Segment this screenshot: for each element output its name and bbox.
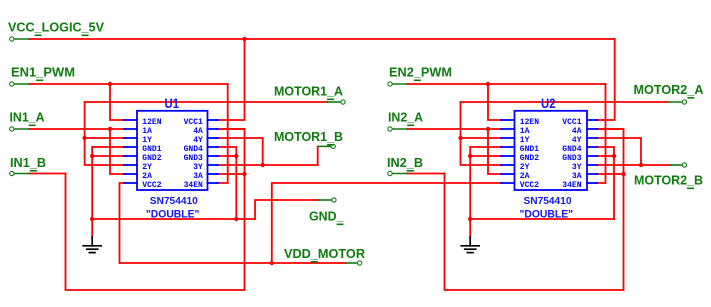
- junction dot VDD_MOTOR riser: [270, 261, 274, 265]
- wire IN1_B label green stub: [14, 173, 29, 175]
- wire IN1_B down and bottom run: [66, 174, 245, 291]
- wire VCC_LOGIC_5V label green stub: [14, 38, 29, 40]
- wire GND3 row U2: [597, 155, 615, 157]
- svg-text:EN1_PWM: EN1_PWM: [11, 65, 75, 80]
- svg-text:12EN: 12EN: [142, 118, 161, 127]
- junction dot IN2_A 2A riser: [486, 127, 490, 131]
- svg-text:34EN: 34EN: [184, 181, 203, 190]
- wire GND bottom run left: [92, 218, 255, 220]
- node EN2_PWM label circle: [388, 82, 392, 86]
- wire VDD_MOTOR riser to U2 VCC2 row: [272, 183, 501, 263]
- U2 right pin names: [562, 118, 581, 190]
- node MOTOR2_B label circle: [682, 163, 686, 167]
- svg-text:VCC_LOGIC_5V: VCC_LOGIC_5V: [8, 20, 104, 35]
- wire IN2_A label green stub: [392, 128, 407, 130]
- junction dot GND3 U1: [234, 154, 238, 158]
- wire net EN2_PWM horizontal: [407, 83, 606, 85]
- wire net IN2_B horizontal: [407, 173, 445, 175]
- wire GND2 row U2: [470, 155, 502, 157]
- junction dot MOTOR2_A 1Y: [458, 136, 462, 140]
- wire IN2_B riser to 4A and 3A: [597, 129, 624, 290]
- ground GND1 symbol left: [83, 237, 101, 253]
- wire GND right rows GND4 GND3: [217, 147, 236, 219]
- U1 right pin names: [184, 118, 203, 190]
- svg-text:2A: 2A: [142, 172, 152, 181]
- node VDD_MOTOR label circle: [357, 261, 361, 265]
- svg-text:GND1: GND1: [520, 145, 539, 154]
- wire MOTOR1_A riser 1Y 2Y: [85, 102, 125, 165]
- wire MOTOR2_B label green stub: [671, 164, 682, 166]
- wire MOTOR2_A riser 1Y 2Y: [461, 102, 503, 165]
- wire EN2_PWM riser to 12EN: [488, 84, 502, 120]
- wire GND bottom run right: [470, 218, 614, 220]
- wire net VCC riser to U2 VCC1: [597, 39, 615, 120]
- wire GND2 row U1: [92, 155, 125, 157]
- node EN1_PWM label circle: [10, 82, 14, 86]
- wire 4Y row U1 drop to 3Y: [217, 138, 263, 165]
- wire net MOTOR2_B 3Y row: [597, 164, 671, 166]
- svg-text:IN1_A: IN1_A: [10, 110, 46, 125]
- svg-text:12EN: 12EN: [520, 118, 539, 127]
- svg-text:MOTOR1_B: MOTOR1_B: [274, 129, 343, 144]
- svg-text:VCC2: VCC2: [142, 181, 161, 190]
- svg-text:U1: U1: [165, 96, 180, 111]
- svg-text:GND2: GND2: [520, 154, 539, 163]
- svg-text:4A: 4A: [572, 127, 582, 136]
- wire IN1_B riser to 4A and 3A: [217, 129, 245, 290]
- wire net VCC_LOGIC_5V horizontal: [29, 38, 615, 40]
- wire VDD_MOTOR bottom horizontal: [120, 262, 347, 264]
- wire 3A row U2: [597, 173, 624, 175]
- wire GND_ label green stub: [319, 199, 332, 201]
- junction dot GND bottom right U1: [234, 217, 238, 221]
- wire MOTOR1_B riser: [317, 146, 319, 165]
- junction dot GND2 U1: [90, 154, 94, 158]
- wire net GND right rows GND1 GND2 U2: [470, 146, 502, 148]
- U1 left pin names: [142, 118, 161, 190]
- op-amp U2 IC body SN754410: [501, 96, 597, 221]
- wire net VCC riser to U1 VCC1: [217, 39, 245, 120]
- node IN1_A label circle: [10, 127, 14, 131]
- wire net EN1_PWM horizontal: [29, 83, 228, 85]
- node IN2_A label circle: [388, 127, 392, 131]
- svg-text:1Y: 1Y: [142, 136, 152, 145]
- svg-text:4Y: 4Y: [572, 136, 582, 145]
- svg-text:3Y: 3Y: [572, 163, 582, 172]
- svg-text:34EN: 34EN: [562, 181, 581, 190]
- svg-text:2A: 2A: [520, 172, 530, 181]
- svg-text:3A: 3A: [572, 172, 582, 181]
- wire GND_ label riser: [255, 200, 319, 219]
- svg-text:"DOUBLE": "DOUBLE": [520, 209, 574, 221]
- node VCC_LOGIC_5V label circle: [10, 37, 14, 41]
- wire GND3 row U1: [217, 155, 236, 157]
- junction dot IN1_A 2A riser: [108, 127, 112, 131]
- junction dot GND2 U2: [468, 154, 472, 158]
- wire MOTOR2_A label green stub: [668, 101, 682, 103]
- junction dot VCC at U1 riser: [242, 37, 246, 41]
- wire 4A row U1: [217, 128, 245, 130]
- ground GND2 symbol right: [461, 237, 479, 253]
- wire 1Y row U2: [461, 137, 503, 139]
- junction dot MOTOR1_B 3Y: [261, 163, 265, 167]
- svg-text:EN2_PWM: EN2_PWM: [389, 65, 452, 80]
- wire EN1_PWM riser to 34EN: [217, 84, 228, 183]
- wire EN2_PWM riser to 34EN: [597, 84, 606, 183]
- svg-text:IN2_A: IN2_A: [388, 110, 424, 125]
- wire GND riser U2 left: [469, 147, 471, 237]
- node GND_ label circle: [332, 198, 336, 202]
- wire VDD_MOTOR label green stub: [346, 262, 357, 264]
- junction dot IN1_B 3A: [242, 172, 246, 176]
- svg-text:GND4: GND4: [184, 145, 203, 154]
- wire net GND left rows GND1 GND2: [92, 146, 125, 148]
- U2 left pin stubs: [501, 120, 515, 183]
- wire IN2_A riser to 2A: [488, 129, 502, 174]
- svg-text:GND1: GND1: [142, 145, 161, 154]
- svg-text:2Y: 2Y: [520, 163, 530, 172]
- U2 left pin names: [520, 118, 539, 190]
- junction dot GND bottom U2: [468, 217, 472, 221]
- wire GND left riser: [91, 147, 93, 237]
- wire net VDD_MOTOR U1 VCC2 drop: [120, 183, 126, 263]
- junction dot MOTOR1_A 1Y: [82, 136, 86, 140]
- svg-text:SN754410: SN754410: [524, 195, 572, 207]
- wire net IN2_A horizontal: [407, 128, 502, 130]
- U1 left pin stubs: [124, 120, 137, 183]
- wire EN2_PWM label green stub: [392, 83, 407, 85]
- junction dot EN1_PWM 12EN riser: [108, 82, 112, 86]
- wire 3A row U1: [217, 173, 245, 175]
- junction dot GND3 U2: [612, 154, 616, 158]
- node MOTOR1_A label circle: [341, 100, 345, 104]
- svg-text:1A: 1A: [520, 127, 530, 136]
- wire EN1_PWM label green stub: [14, 83, 29, 85]
- svg-text:U2: U2: [541, 96, 556, 111]
- U1 right pin stubs: [208, 120, 219, 183]
- wire IN1_A riser to 2A: [110, 129, 125, 174]
- svg-text:GND2: GND2: [142, 154, 161, 163]
- svg-text:3A: 3A: [193, 172, 203, 181]
- junction dot GND bottom left U1: [90, 217, 94, 221]
- svg-text:VCC1: VCC1: [184, 118, 203, 127]
- U2 right pin stubs: [587, 120, 597, 183]
- svg-text:"DOUBLE": "DOUBLE": [146, 209, 200, 221]
- svg-text:GND3: GND3: [184, 154, 203, 163]
- wire 4A row U2: [597, 128, 624, 130]
- wire net MOTOR1_B 3Y row: [217, 164, 318, 166]
- wire IN1_A label green stub: [14, 128, 29, 130]
- svg-text:VCC2: VCC2: [520, 181, 539, 190]
- wire IN2_B down and bottom run: [445, 174, 624, 291]
- wire net IN1_A horizontal: [29, 128, 125, 130]
- svg-text:IN1_B: IN1_B: [10, 155, 46, 170]
- svg-text:VDD_MOTOR: VDD_MOTOR: [284, 246, 366, 261]
- op-amp U1 IC body SN754410: [124, 96, 218, 221]
- svg-text:GND4: GND4: [562, 145, 581, 154]
- svg-text:GND_: GND_: [309, 209, 344, 224]
- svg-text:3Y: 3Y: [193, 163, 203, 172]
- node IN2_B label circle: [388, 171, 392, 175]
- wire GND4 row U2 riser: [597, 147, 615, 219]
- node MOTOR2_A label circle: [682, 100, 686, 104]
- svg-text:GND3: GND3: [562, 154, 581, 163]
- wire MOTOR1_A label green stub: [327, 101, 341, 103]
- junction dot EN2_PWM 12EN riser: [486, 82, 490, 86]
- wire 1Y row U1: [85, 137, 125, 139]
- svg-text:IN2_B: IN2_B: [387, 155, 423, 170]
- wire net MOTOR2_A horizontal: [461, 101, 668, 103]
- node MOTOR1_B label circle: [331, 144, 335, 148]
- svg-text:4A: 4A: [193, 127, 203, 136]
- svg-text:1A: 1A: [142, 127, 152, 136]
- wire 4Y row U2 drop to 3Y: [597, 138, 642, 165]
- svg-text:MOTOR2_B: MOTOR2_B: [634, 173, 703, 188]
- wire IN2_B label green stub: [392, 173, 407, 175]
- node IN1_B label circle: [10, 171, 14, 175]
- wire net MOTOR1_A horizontal: [85, 101, 327, 103]
- junction dot MOTOR2_B 3Y: [639, 163, 643, 167]
- wire net IN1_B horizontal: [29, 173, 66, 175]
- wire MOTOR1_B label green stub: [318, 145, 331, 147]
- svg-text:2Y: 2Y: [142, 163, 152, 172]
- junction dot IN2_B 3A: [621, 172, 625, 176]
- svg-text:MOTOR2_A: MOTOR2_A: [634, 82, 705, 97]
- svg-text:1Y: 1Y: [520, 136, 530, 145]
- svg-text:VCC1: VCC1: [562, 118, 581, 127]
- svg-text:MOTOR1_A: MOTOR1_A: [274, 84, 344, 99]
- svg-text:4Y: 4Y: [193, 136, 203, 145]
- wire EN1_PWM riser to 12EN: [110, 84, 125, 120]
- svg-text:SN754410: SN754410: [150, 195, 198, 207]
